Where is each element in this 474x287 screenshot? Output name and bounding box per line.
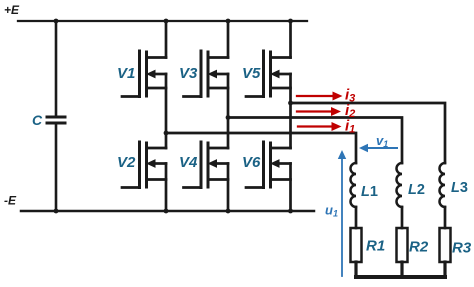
resistor R1 — [351, 228, 362, 262]
transistor V2 — [122, 142, 166, 188]
current arrow i3 — [297, 92, 343, 101]
svg-text:L1: L1 — [361, 184, 378, 200]
svg-text:V6: V6 — [242, 154, 261, 171]
voltage arrow u1 — [338, 150, 346, 276]
svg-text:-E: -E — [4, 194, 17, 208]
wire phase A output (leg1 to L1) — [166, 133, 356, 163]
junction bottom rail / V2 — [164, 209, 169, 214]
wire V1 drain to +E — [165, 21, 168, 58]
wire bottom -E rail — [21, 210, 314, 213]
wire R3 to neutral — [443, 262, 446, 277]
junction top rail / C — [54, 19, 59, 24]
capacitor C — [47, 117, 65, 123]
svg-text:R1: R1 — [366, 238, 385, 255]
wire V6 source to -E — [289, 164, 292, 212]
wire V3 source to V4 drain (leg 2) — [227, 74, 230, 148]
svg-text:V5: V5 — [242, 65, 261, 82]
inductor L1 — [351, 163, 357, 207]
svg-text:R3: R3 — [452, 240, 472, 257]
junction leg1 / phase A — [164, 131, 169, 136]
transistor V5 — [246, 51, 291, 97]
current arrow i1 — [298, 122, 342, 131]
svg-text:V3: V3 — [179, 65, 198, 82]
voltage arrow v1 — [359, 144, 397, 152]
svg-text:R2: R2 — [409, 239, 429, 256]
svg-text:C: C — [32, 112, 43, 128]
svg-text:L2: L2 — [408, 182, 425, 198]
svg-text:V4: V4 — [179, 154, 198, 171]
current arrow i2 — [297, 107, 341, 116]
inductor L2 — [397, 163, 403, 207]
svg-text:V1: V1 — [117, 65, 135, 82]
resistor R2 — [397, 228, 408, 262]
wire V2 source to -E — [165, 164, 168, 212]
wire V4 source to -E — [227, 164, 230, 212]
inductor L3 — [440, 163, 445, 207]
wire phase C output (leg3 to L3) — [291, 103, 446, 163]
svg-text:V2: V2 — [117, 154, 136, 171]
junction top rail / V1 — [164, 19, 169, 24]
wire R1 to neutral — [354, 262, 357, 277]
wire neutral (load star point) — [356, 275, 445, 279]
junction leg3 / phase C — [288, 101, 293, 106]
transistor V3 — [184, 51, 229, 97]
junction top rail / V5 — [288, 19, 293, 24]
svg-text:L3: L3 — [451, 180, 468, 196]
junction leg2 / phase B — [226, 115, 231, 120]
wire V1 source to V2 drain (leg 1) — [165, 74, 168, 148]
transistor V4 — [184, 142, 229, 188]
capacitor C1 branch wire top — [55, 21, 58, 116]
wire L1 to R1 — [355, 207, 358, 228]
wire phase B output (leg2 to L2) — [228, 118, 402, 164]
svg-text:+E: +E — [4, 3, 20, 17]
junction top rail / V3 — [226, 19, 231, 24]
wire V3 drain to +E — [227, 21, 230, 58]
transistor V1 — [122, 51, 166, 97]
wire V5 source to V6 drain (leg 3) — [289, 74, 292, 148]
junction bottom rail / V4 — [226, 209, 231, 214]
wire R2 to neutral — [400, 262, 403, 277]
wire L3 to R3 — [444, 207, 447, 228]
resistor R3 — [440, 228, 451, 262]
junction bottom rail / V6 — [288, 209, 293, 214]
wire V5 drain to +E — [289, 21, 292, 58]
wire L2 to R2 — [401, 207, 404, 228]
junction bottom rail / C — [54, 209, 59, 214]
capacitor C1 branch wire bottom — [55, 125, 58, 212]
wire top +E rail — [18, 20, 307, 22]
transistor V6 — [246, 142, 291, 188]
